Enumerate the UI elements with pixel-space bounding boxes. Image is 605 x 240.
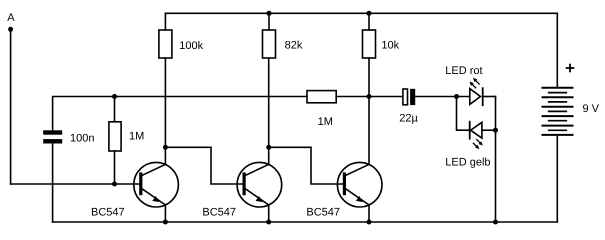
- svg-text:9 V: 9 V: [583, 103, 600, 115]
- svg-text:100n: 100n: [70, 133, 94, 145]
- wire middle rail left: [53, 97, 307, 131]
- node dot LED split: [454, 94, 459, 99]
- LED D2 gelb: [469, 122, 471, 139]
- wire LED gelb branch down: [457, 97, 470, 131]
- label 10k: [381, 40, 399, 52]
- svg-text:1M: 1M: [129, 131, 144, 143]
- wire top rail: [165, 12, 557, 14]
- resistor R5 1M horizontal: [307, 91, 336, 103]
- label 82k: [285, 39, 303, 51]
- wire C1 bottom to ground rail: [52, 144, 54, 223]
- svg-text:A: A: [7, 12, 15, 24]
- label BC547 Q3: [306, 206, 340, 218]
- node dot R2 top: [112, 94, 117, 99]
- resistor R1 100k: [164, 13, 166, 30]
- node dot Q1 collector: [163, 145, 168, 150]
- wire R1 to Q1 collector: [164, 58, 166, 164]
- transistor Q2 BC547: [237, 162, 282, 222]
- resistor R3 82k: [268, 13, 270, 30]
- battery plus sign: [567, 65, 574, 72]
- node dot 10k top: [367, 11, 372, 16]
- resistor R4 10k: [368, 13, 370, 30]
- node dot Q1 emitter: [163, 220, 168, 225]
- node A: [7, 12, 15, 32]
- node dot Q3 collector / middle rail: [367, 94, 372, 99]
- label 9 V: [583, 103, 600, 115]
- svg-text:1M: 1M: [318, 116, 333, 128]
- svg-text:100k: 100k: [179, 40, 203, 52]
- node dot D2 join: [493, 128, 498, 133]
- wire base of Q1: [11, 183, 140, 185]
- label 100n: [70, 133, 94, 145]
- wire coupling Q2 collector to Q3 base: [269, 147, 343, 184]
- node dot Q2 collector: [266, 145, 271, 150]
- LED D1 arrows: [472, 80, 479, 87]
- label BC547 Q1: [91, 206, 125, 218]
- label 1M: [129, 131, 144, 143]
- svg-text:82k: 82k: [285, 39, 303, 51]
- wire R5 to C2: [336, 96, 403, 98]
- battery BT1 9V: [556, 13, 558, 87]
- label 1M: [318, 116, 333, 128]
- node dot Q3 emitter: [367, 220, 372, 225]
- node dot 82k top: [267, 11, 272, 16]
- node dot LED branch ground: [493, 220, 498, 225]
- wire D1 to right branch: [483, 96, 496, 98]
- transistor Q3 BC547: [337, 162, 382, 222]
- svg-text:BC547: BC547: [306, 206, 340, 218]
- svg-text:LED rot: LED rot: [445, 65, 482, 77]
- label 22u: [399, 113, 418, 125]
- resistor R2 1M vertical: [114, 97, 116, 122]
- LED D1 rot: [470, 89, 481, 105]
- node dot R2 bottom: [112, 182, 117, 187]
- capacitor C2 22u electrolytic: [403, 89, 408, 105]
- node dot Q2 emitter: [266, 220, 271, 225]
- transistor Q1 BC547: [134, 162, 179, 222]
- wire R4 to Q3 collector: [368, 58, 370, 164]
- svg-text:BC547: BC547: [202, 206, 236, 218]
- label LED gelb: [445, 156, 490, 168]
- wire C2 to LED split: [415, 96, 470, 98]
- capacitor C1 100n: [43, 130, 62, 143]
- svg-text:22µ: 22µ: [399, 113, 418, 125]
- wire A down: [10, 29, 12, 184]
- svg-text:LED gelb: LED gelb: [445, 156, 490, 168]
- wire right branch down: [495, 97, 497, 223]
- wire ground rail: [53, 221, 558, 223]
- wire D2 to right branch: [482, 129, 496, 131]
- LED D2 arrows: [473, 140, 480, 147]
- wire coupling Q1 collector to Q2 base: [165, 147, 242, 184]
- label 100k: [179, 40, 203, 52]
- svg-text:10k: 10k: [381, 40, 399, 52]
- svg-text:BC547: BC547: [91, 206, 125, 218]
- label BC547 Q2: [202, 206, 236, 218]
- label LED rot: [445, 65, 482, 77]
- wire R3 to Q2 collector: [268, 58, 270, 164]
